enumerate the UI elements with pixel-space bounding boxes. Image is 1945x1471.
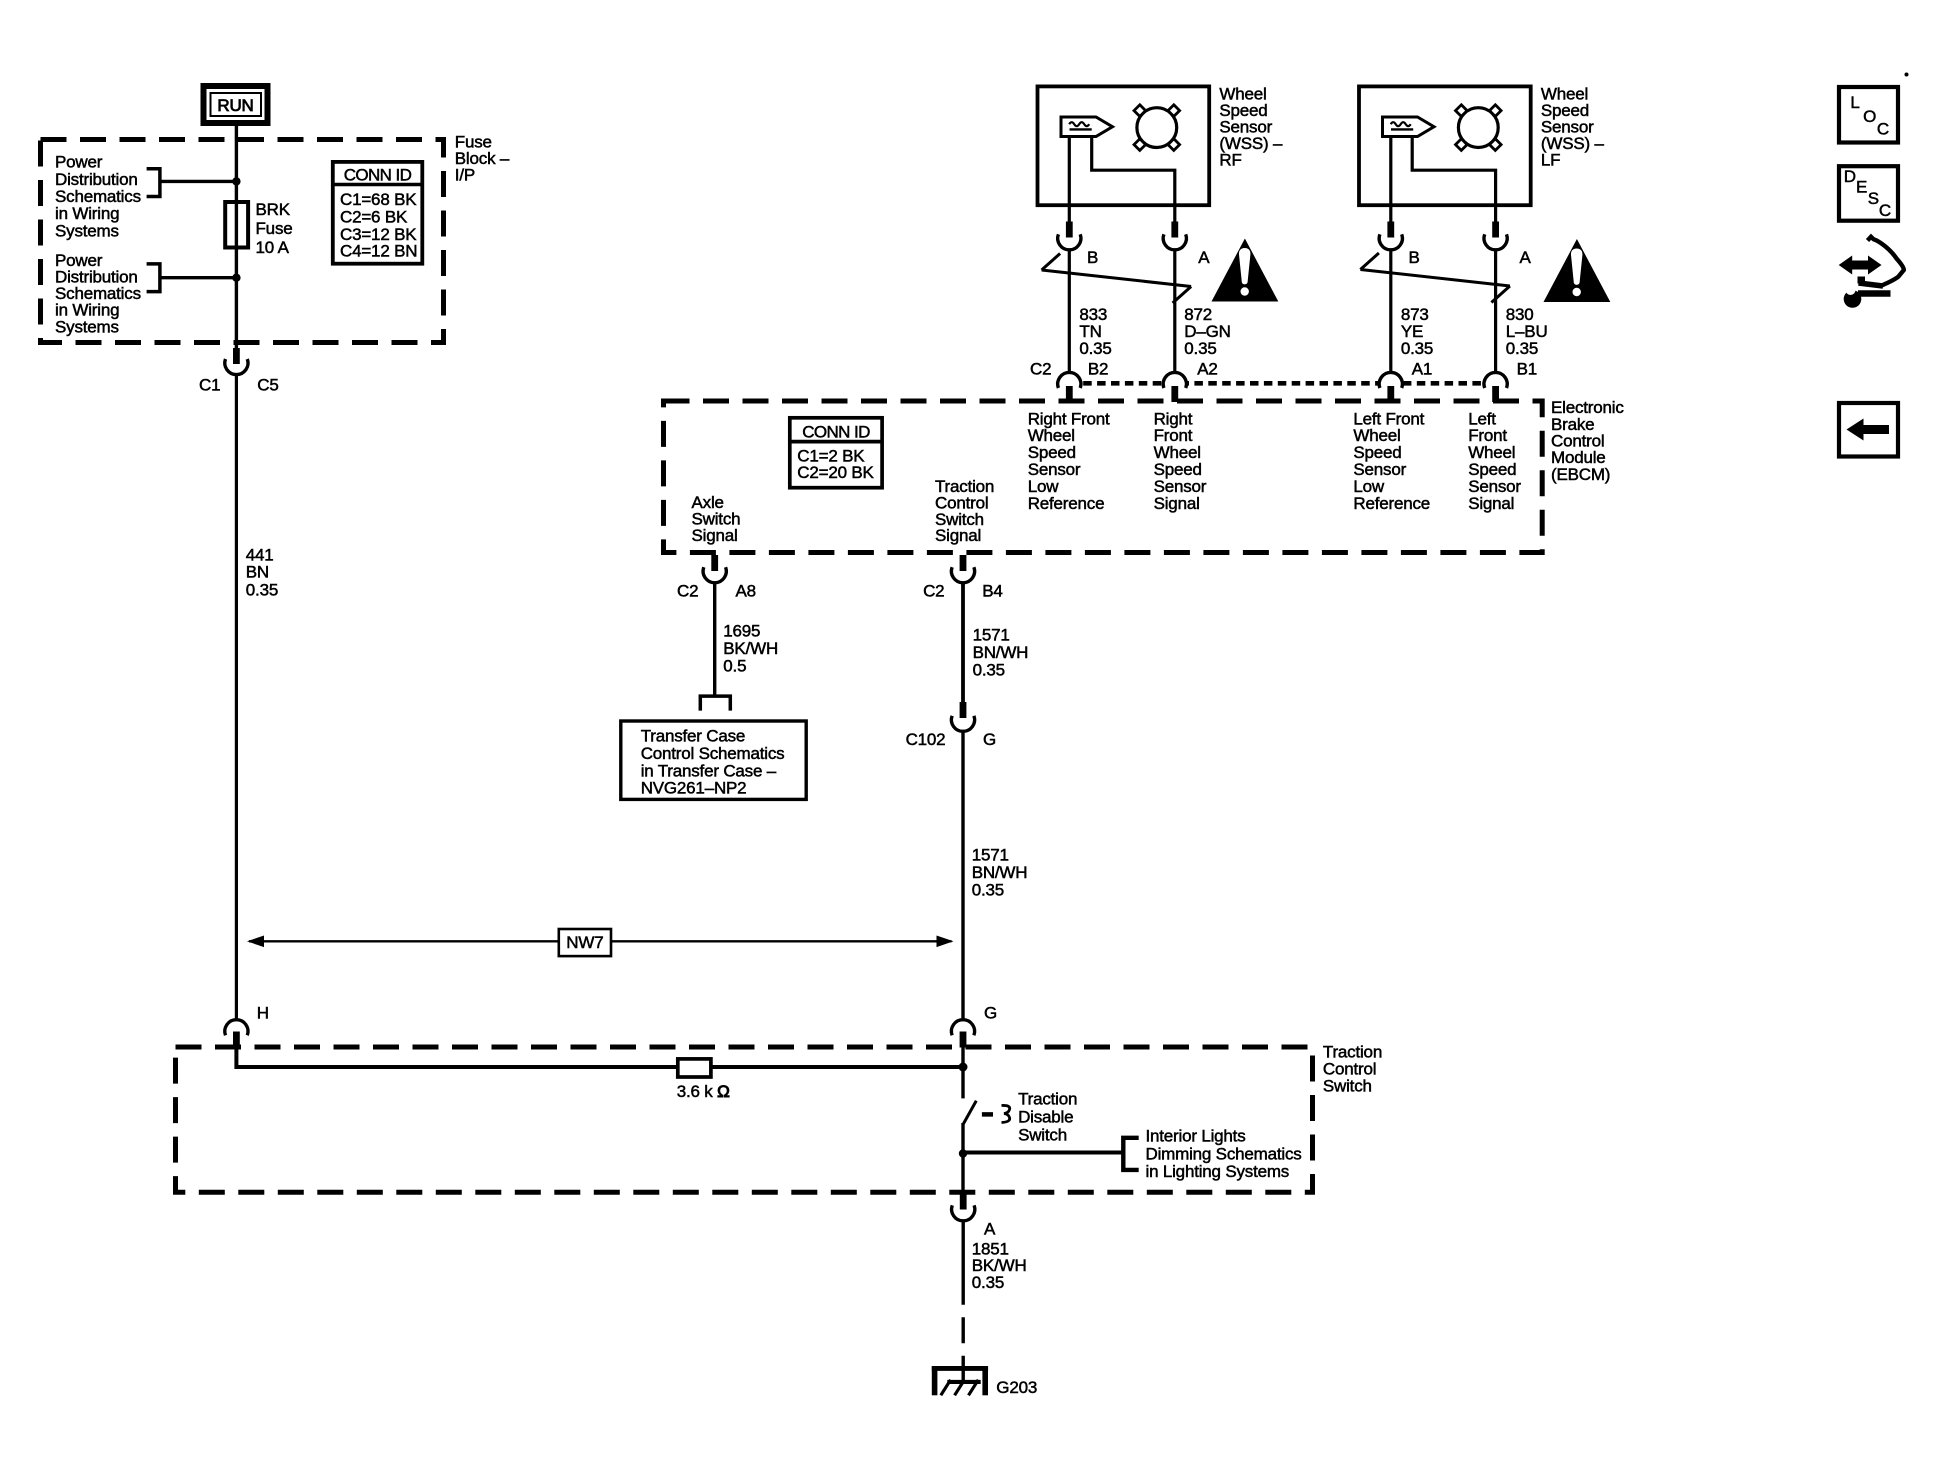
WSS-LF pin A connector <box>1484 222 1532 268</box>
svg-text:Transfer Case: Transfer Case <box>641 727 745 746</box>
fuse block I/P dashed box <box>41 140 444 343</box>
WSS-RF pin A connector <box>1163 222 1210 268</box>
svg-text:Signal: Signal <box>1468 494 1514 513</box>
wire 833 TN segment <box>1068 250 1071 374</box>
transfer case off-page connector symbol <box>700 696 730 711</box>
svg-text:BN: BN <box>246 563 269 582</box>
power distribution reference 2 bracket <box>147 264 160 292</box>
resistor 3.6k <box>678 1059 711 1077</box>
svg-text:C1: C1 <box>199 376 220 395</box>
connector C1/C5 (fuse block output) <box>199 348 279 395</box>
EBCM internal label: LF WSS signal <box>1468 409 1521 513</box>
EBCM pin A2 connector <box>1163 360 1218 403</box>
wire label 1571 BN/WH 0.35 lower <box>972 846 1028 900</box>
inline connector C102 pin G <box>906 702 996 749</box>
WSS-RF sensor element icon <box>1061 117 1113 137</box>
svg-text:I/P: I/P <box>455 165 475 184</box>
svg-text:Switch: Switch <box>1018 1126 1067 1145</box>
junction node at bus / ref 1 <box>232 177 240 185</box>
svg-text:C2: C2 <box>923 582 944 601</box>
wire WSS-RF pin B lead <box>1068 136 1071 223</box>
interior lights dimming label <box>1146 1127 1302 1181</box>
wire label 873 YE 0.35 <box>1401 305 1433 358</box>
svg-text:in Wiring: in Wiring <box>55 204 119 223</box>
svg-text:in Lighting Systems: in Lighting Systems <box>1146 1162 1290 1181</box>
switch pin A connector <box>952 1194 996 1239</box>
wire 873 YE segment <box>1389 250 1392 374</box>
junction node at bus / ref 2 <box>232 274 240 282</box>
svg-text:RUN: RUN <box>217 96 253 115</box>
traction control switch label <box>1323 1043 1382 1096</box>
svg-text:in Transfer Case –: in Transfer Case – <box>641 761 777 780</box>
svg-text:C2=20 BK: C2=20 BK <box>797 463 874 482</box>
wire 830 L-BU segment <box>1494 250 1497 374</box>
wire bracket 1 to bus <box>160 180 237 183</box>
WSS-RF label <box>1219 85 1283 170</box>
svg-text:0.35: 0.35 <box>1079 339 1111 358</box>
svg-text:3.6 k Ω: 3.6 k Ω <box>677 1082 730 1101</box>
ignition RUN feed box <box>204 86 268 123</box>
wire 872 D-GN segment <box>1173 250 1176 374</box>
svg-text:E: E <box>1856 177 1867 196</box>
traction disable switch label <box>1018 1089 1077 1144</box>
svg-text:B: B <box>1087 248 1098 267</box>
svg-text:C2: C2 <box>677 582 698 601</box>
svg-text:A2: A2 <box>1197 360 1217 379</box>
svg-text:Dimming Schematics: Dimming Schematics <box>1146 1144 1302 1163</box>
svg-text:Distribution: Distribution <box>55 170 138 189</box>
EBCM pin A8 connector <box>677 555 756 601</box>
wire G down to junction <box>961 1048 964 1099</box>
EBCM internal label: RF WSS low reference <box>1028 409 1110 513</box>
switch detent curl <box>1002 1105 1010 1122</box>
EBCM internal label: LF WSS low reference <box>1353 409 1430 513</box>
wire 1851 dashed tail <box>962 1305 965 1368</box>
svg-text:A8: A8 <box>736 582 756 601</box>
svg-text:BN/WH: BN/WH <box>972 863 1028 882</box>
power distribution reference 2 label <box>55 251 141 336</box>
interior lights dimming bracket <box>1123 1138 1138 1170</box>
svg-text:CONN ID: CONN ID <box>802 422 870 441</box>
svg-text:C: C <box>1877 120 1889 139</box>
EBCM pin B2 connector <box>1030 360 1108 403</box>
harness dotted tie line <box>1069 381 1495 386</box>
svg-text:BK/WH: BK/WH <box>723 639 778 658</box>
svg-text:Signal: Signal <box>1154 494 1200 513</box>
harness NW7 span arrow <box>247 929 954 956</box>
svg-text:Disable: Disable <box>1018 1108 1073 1127</box>
svg-text:B1: B1 <box>1517 360 1537 379</box>
wire bracket 2 to bus <box>160 276 237 279</box>
EBCM pin A1 connector <box>1379 360 1432 403</box>
svg-text:RF: RF <box>1219 151 1241 170</box>
svg-text:C2: C2 <box>1030 360 1051 379</box>
warning triangle LF <box>1544 239 1611 302</box>
EBCM internal label: traction control switch signal <box>935 477 994 545</box>
svg-text:1571: 1571 <box>973 626 1010 645</box>
diagnostic arrow-wrench icon <box>1839 237 1904 308</box>
twisted pair marker RF <box>1042 254 1192 304</box>
svg-text:G: G <box>983 730 996 749</box>
svg-text:C5: C5 <box>257 376 278 395</box>
fuse block label <box>455 132 510 184</box>
wire 1695 BK/WH <box>713 583 716 695</box>
DESC nav button <box>1839 166 1898 221</box>
wire to interior lights dimming <box>963 1151 1122 1155</box>
stray mark <box>1905 73 1909 77</box>
svg-text:B4: B4 <box>982 582 1002 601</box>
warning triangle RF <box>1212 239 1279 302</box>
svg-text:Interior Lights: Interior Lights <box>1146 1127 1246 1146</box>
CONN ID table (EBCM) <box>790 418 882 488</box>
back arrow nav button <box>1839 403 1898 457</box>
svg-text:Systems: Systems <box>55 317 119 336</box>
WSS-LF pin B connector <box>1379 222 1419 268</box>
WSS-RF tone wheel icon <box>1134 105 1180 151</box>
wire label 1695 BK/WH 0.5 <box>723 622 778 676</box>
svg-text:O: O <box>1863 107 1876 126</box>
WSS-LF sensor element icon <box>1383 117 1435 137</box>
EBCM internal label: RF WSS signal <box>1154 409 1207 513</box>
wire label 1571 BN/WH 0.35 upper <box>973 626 1029 680</box>
svg-text:A1: A1 <box>1412 360 1432 379</box>
CONN ID table (fuse block) <box>333 162 423 264</box>
svg-text:D: D <box>1844 167 1856 186</box>
svg-text:L: L <box>1850 93 1859 112</box>
junction node at dimming tap <box>959 1149 967 1157</box>
switch pin H connector <box>225 1003 269 1047</box>
wire label 872 D-GN 0.35 <box>1184 305 1230 358</box>
svg-text:H: H <box>257 1003 269 1022</box>
wheel speed sensor WSS-LF box <box>1359 86 1531 205</box>
svg-text:(EBCM): (EBCM) <box>1551 465 1610 484</box>
WSS-LF tone wheel icon <box>1456 105 1502 151</box>
svg-text:0.35: 0.35 <box>973 661 1005 680</box>
svg-text:Reference: Reference <box>1353 494 1430 513</box>
svg-text:Fuse: Fuse <box>256 219 293 238</box>
svg-text:0.35: 0.35 <box>1506 339 1538 358</box>
svg-text:Switch: Switch <box>1323 1076 1372 1095</box>
wire label 1851 BK/WH 0.35 <box>972 1239 1027 1292</box>
wheel speed sensor WSS-RF box <box>1038 86 1210 205</box>
svg-text:B: B <box>1409 248 1420 267</box>
svg-text:NVG261–NP2: NVG261–NP2 <box>641 779 747 798</box>
WSS-RF pin B connector <box>1058 222 1098 268</box>
svg-text:Systems: Systems <box>55 221 119 240</box>
svg-text:0.35: 0.35 <box>1401 339 1433 358</box>
svg-text:BN/WH: BN/WH <box>973 643 1029 662</box>
wire 1571 BN/WH upper <box>961 583 965 703</box>
junction node at G / resistor run <box>959 1063 968 1072</box>
svg-text:Signal: Signal <box>935 526 981 545</box>
EBCM internal label: axle switch signal <box>692 493 741 545</box>
svg-text:Schematics: Schematics <box>55 187 141 206</box>
transfer case schematics reference box <box>621 721 806 799</box>
traction disable switch blade <box>963 1101 976 1124</box>
svg-text:S: S <box>1868 189 1879 208</box>
svg-text:A: A <box>984 1220 996 1239</box>
wire WSS-LF pin B lead <box>1389 136 1392 223</box>
svg-text:0.35: 0.35 <box>972 880 1004 899</box>
svg-text:CONN ID: CONN ID <box>344 166 412 185</box>
wire H to resistor run <box>236 1048 963 1068</box>
ground G203 symbol <box>932 1366 988 1395</box>
svg-text:0.35: 0.35 <box>1184 339 1216 358</box>
svg-text:G203: G203 <box>996 1378 1037 1397</box>
svg-text:A: A <box>1520 248 1532 267</box>
LOC nav button <box>1839 87 1898 143</box>
svg-text:1695: 1695 <box>723 622 760 641</box>
wire 1851 BK/WH solid <box>962 1221 965 1305</box>
wire switch to exit <box>961 1123 964 1195</box>
svg-text:Traction: Traction <box>1018 1089 1077 1108</box>
svg-text:C102: C102 <box>906 730 946 749</box>
wire WSS-LF pin A lead <box>1412 136 1495 223</box>
svg-text:Power: Power <box>55 153 103 172</box>
svg-text:C4=12 BN: C4=12 BN <box>340 242 417 261</box>
EBCM dashed box <box>664 401 1543 553</box>
wire 441 BN (left bus down) <box>235 375 238 1020</box>
svg-text:BRK: BRK <box>256 200 291 219</box>
svg-text:B2: B2 <box>1088 360 1108 379</box>
switch linkage dash <box>982 1112 993 1117</box>
svg-text:C2=6 BK: C2=6 BK <box>340 207 408 226</box>
svg-text:Signal: Signal <box>692 526 738 545</box>
twisted pair marker LF <box>1360 253 1510 303</box>
switch pin G connector <box>951 1003 997 1047</box>
wire label 833 TN 0.35 <box>1079 305 1111 358</box>
wire WSS-RF pin A lead <box>1092 136 1175 223</box>
svg-text:LF: LF <box>1541 151 1560 170</box>
svg-text:Control Schematics: Control Schematics <box>641 744 785 763</box>
EBCM pin B4 connector <box>923 555 1003 601</box>
svg-text:0.5: 0.5 <box>723 657 746 676</box>
svg-text:NW7: NW7 <box>566 933 603 952</box>
svg-text:10 A: 10 A <box>256 238 290 257</box>
svg-text:A: A <box>1198 248 1210 267</box>
fuse BRK 10A value label <box>256 200 293 257</box>
power distribution reference 1 bracket <box>147 169 160 197</box>
EBCM pin B1 connector <box>1484 360 1537 403</box>
WSS-LF label <box>1541 85 1605 170</box>
wire label 830 L-BU 0.35 <box>1506 305 1548 358</box>
svg-text:G: G <box>984 1003 997 1022</box>
svg-text:0.35: 0.35 <box>246 580 278 599</box>
traction control switch dashed box <box>176 1047 1313 1192</box>
svg-text:Reference: Reference <box>1028 494 1105 513</box>
fuse BRK 10A <box>225 202 248 248</box>
power distribution reference 1 label <box>55 153 141 241</box>
wire 1571 BN/WH lower <box>961 731 964 1020</box>
svg-text:C: C <box>1879 201 1891 220</box>
EBCM label <box>1551 398 1624 484</box>
wire label 441 BN 0.35 <box>246 546 278 600</box>
svg-text:0.35: 0.35 <box>972 1273 1004 1292</box>
wire RUN to fuse (bus) <box>235 121 238 348</box>
